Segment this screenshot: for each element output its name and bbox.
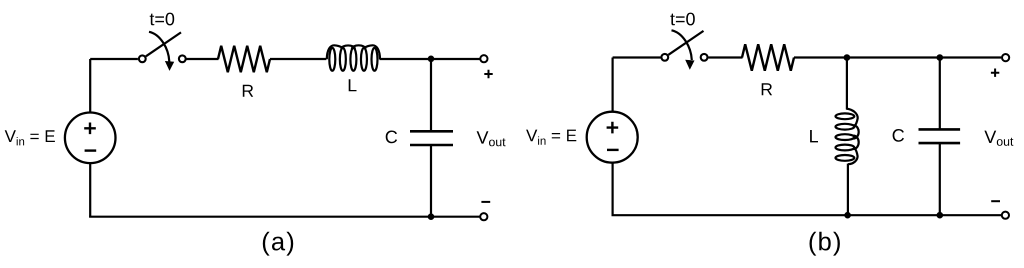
switch motion arc (b): [672, 30, 692, 60]
capacitor C (b) bottom plate: [919, 142, 961, 145]
label t=0 (b): [670, 13, 695, 26]
label L (a): [349, 79, 357, 91]
label R (b): [762, 83, 772, 95]
voltage source E (b), circle: [587, 112, 638, 163]
resistor R (a) zigzag: [218, 46, 270, 72]
voltage source (a) plus mark: [84, 123, 96, 135]
junction node (a) top at capacitor: [428, 56, 435, 63]
label (b): [810, 232, 840, 256]
resistor R (b) zigzag: [742, 44, 794, 70]
switch arrowhead (b): [685, 60, 694, 70]
switch arrowhead (a): [165, 61, 174, 71]
inductor L (a) coil: [327, 45, 380, 71]
wire: (a) bottom horizontal: [89, 216, 480, 218]
switch left contact circle (b): [661, 54, 668, 61]
wire: (a) top horizontal from corner to switch left contact: [90, 58, 138, 60]
voltage source E (a), circle: [65, 113, 116, 164]
voltage source (b) plus mark: [607, 122, 619, 134]
wire: (b) top-left vertical from corner down to source top: [611, 58, 613, 113]
output terminal + circle (b): [1002, 54, 1009, 61]
junction node (b) bottom at capacitor: [937, 212, 944, 219]
switch blade (b): [668, 31, 703, 55]
label t=0 (a): [150, 13, 175, 26]
wire: (a) inductor to output terminal: [380, 58, 480, 60]
capacitor C (a) bottom plate: [410, 144, 453, 147]
wire: (b) source bottom to bottom-left corner: [611, 162, 613, 215]
label Vin = E (b): [526, 130, 576, 145]
wire: (b) resistor to inductor junction and capacitor junction and terminal: [794, 56, 1001, 58]
voltage source (a) minus mark: [85, 149, 97, 151]
label Vin = E (a): [5, 130, 55, 145]
junction node (a) bottom at capacitor: [428, 213, 435, 220]
voltage source (b) minus mark: [607, 149, 619, 151]
wire: (b) capacitor bottom lead: [939, 143, 941, 215]
wire: (b) inductor top lead: [846, 58, 848, 110]
label R (a): [243, 85, 253, 97]
wire: (b) inductor bottom lead: [847, 164, 849, 216]
output terminal - circle (b): [1002, 212, 1009, 219]
switch right contact circle (b): [701, 54, 708, 61]
inductor L (b) vertical coil: [836, 109, 859, 165]
wire: (b) bottom horizontal: [612, 214, 1002, 216]
wire: (a) source bottom to bottom-left corner: [89, 163, 91, 217]
switch left contact circle (a): [139, 55, 146, 62]
output terminal + circle (a): [480, 55, 487, 62]
label Vout (b): [984, 131, 1013, 146]
label output plus (b): [991, 69, 999, 77]
capacitor C (b) top plate: [919, 128, 961, 131]
capacitor C (a) top plate: [410, 130, 453, 133]
junction node (b) bottom at inductor: [844, 212, 851, 219]
wire: (a) top-left vertical from corner down to source top: [89, 59, 91, 113]
output terminal - circle (a): [480, 213, 487, 220]
wire: (a) capacitor top lead: [430, 59, 432, 131]
junction node (b) top at capacitor: [937, 54, 944, 61]
switch right contact circle (a): [179, 55, 186, 62]
label output plus (a): [484, 70, 492, 78]
wire: (b) capacitor top lead: [939, 58, 941, 130]
junction node (b) top at inductor: [844, 54, 851, 61]
wire: (a) resistor to inductor: [270, 58, 326, 60]
label Vout (a): [477, 131, 506, 146]
label L (b): [810, 130, 818, 142]
wire: (a) capacitor bottom lead: [430, 145, 432, 217]
label (a): [263, 232, 293, 256]
label C (a): [386, 131, 397, 144]
switch blade (a): [146, 32, 181, 56]
wire: (a) switch to resistor: [187, 58, 219, 60]
wire: (b) top horizontal from corner to switch left contact: [613, 56, 661, 58]
label C (b): [893, 129, 904, 142]
wire: (b) switch to resistor: [708, 56, 742, 58]
switch motion arc (a): [149, 32, 169, 62]
label output minus (b): [991, 200, 1000, 202]
label output minus (a): [481, 201, 490, 203]
